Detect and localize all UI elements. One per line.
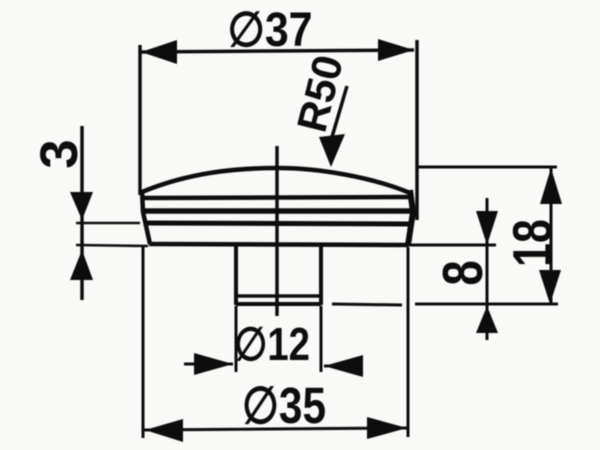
svg-text:18: 18 bbox=[502, 219, 563, 267]
dim 3 lower extension line bbox=[76, 245, 148, 246]
dim 8 top arrowhead bbox=[476, 211, 498, 245]
dim Ø35 right arrowhead bbox=[367, 417, 407, 439]
dim Ø35 dimension line bbox=[143, 428, 408, 430]
dim Ø12 right extension line bbox=[320, 306, 323, 372]
dim 18 bottom arrowhead bbox=[539, 270, 561, 304]
flange bottom line bbox=[149, 244, 408, 245]
dim 18 top arrowhead bbox=[540, 168, 562, 204]
dim 8 dimension line bbox=[486, 198, 489, 340]
dim Ø37 dimension line bbox=[141, 50, 414, 52]
dim R50 leader line bbox=[332, 86, 347, 137]
stem bottom extension line left part bbox=[332, 304, 402, 305]
centerline bbox=[275, 146, 279, 316]
dim Ø12 left arrowhead bbox=[194, 353, 233, 375]
dim 8 bottom arrowhead bbox=[476, 306, 498, 333]
svg-text:8: 8 bbox=[430, 260, 494, 285]
dim 3 lower arrowhead bbox=[70, 250, 93, 280]
svg-text:3: 3 bbox=[30, 139, 89, 168]
stem end chamfer line bbox=[237, 294, 320, 298]
flange upper line bbox=[142, 208, 413, 214]
dim Ø35 left arrowhead bbox=[145, 419, 183, 442]
dim R50 arrowhead bbox=[319, 134, 345, 167]
dim Ø35 right extension line bbox=[407, 247, 410, 437]
dim 18 dimension line bbox=[550, 168, 553, 304]
dim Ø12 right arrowhead bbox=[324, 355, 363, 377]
dome base line bbox=[142, 197, 411, 198]
dim Ø12 left extension line bbox=[235, 306, 238, 372]
stem bottom line bbox=[236, 302, 321, 306]
dim 3 upper extension line bbox=[76, 222, 140, 225]
right edge of cap bbox=[408, 190, 413, 245]
left edge of cap bbox=[142, 190, 150, 244]
dim 3 dimension line bbox=[80, 126, 84, 300]
dim 3 upper arrowhead bbox=[70, 192, 93, 220]
svg-text:∅12: ∅12 bbox=[234, 318, 310, 370]
flange middle line bbox=[147, 223, 411, 224]
dim Ø12 left tail line bbox=[184, 363, 233, 366]
svg-text:∅35: ∅35 bbox=[242, 377, 326, 434]
stem left edge bbox=[234, 245, 238, 305]
dim Ø35 left extension line bbox=[142, 247, 145, 438]
dim Ø12 right tail line bbox=[324, 365, 362, 368]
stem right edge bbox=[319, 245, 323, 305]
dim Ø37 right arrowhead bbox=[378, 39, 414, 61]
dim Ø37 left arrowhead bbox=[141, 40, 177, 64]
dim Ø37 left extension line bbox=[138, 45, 142, 195]
dim Ø37 right extension line bbox=[415, 40, 419, 220]
dim 8 flange extension line bbox=[408, 244, 496, 247]
stem bottom extension line right part bbox=[415, 303, 558, 306]
dim 18 top extension line bbox=[417, 166, 557, 169]
svg-text:∅37: ∅37 bbox=[228, 4, 313, 57]
dome arc R50 bbox=[142, 168, 410, 193]
